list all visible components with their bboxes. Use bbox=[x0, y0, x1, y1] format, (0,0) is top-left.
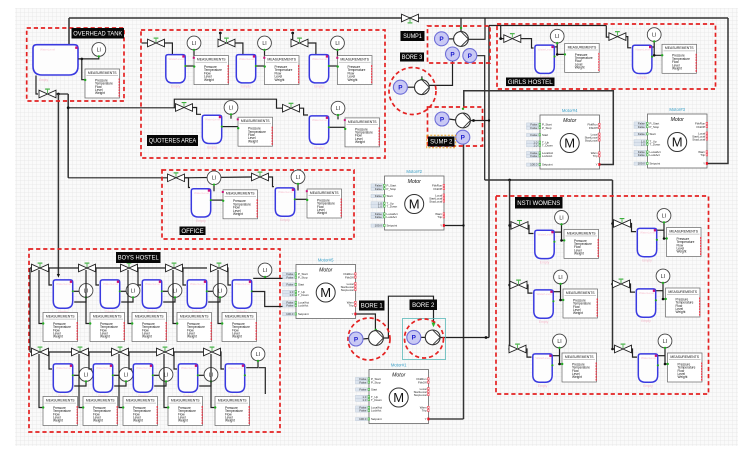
svg-text:SUMP 2: SUMP 2 bbox=[430, 140, 453, 146]
svg-text:Motor#4: Motor#4 bbox=[562, 108, 578, 113]
svg-text:Motor#2: Motor#2 bbox=[406, 169, 422, 174]
svg-text:BORE 2: BORE 2 bbox=[412, 303, 435, 309]
svg-text:QUOTERES AREA: QUOTERES AREA bbox=[149, 138, 197, 145]
svg-text:BORE 1: BORE 1 bbox=[361, 304, 384, 310]
svg-text:SUMP1: SUMP1 bbox=[403, 34, 422, 40]
svg-text:NSTI WOMENS: NSTI WOMENS bbox=[517, 200, 560, 207]
svg-text:Motor#3: Motor#3 bbox=[669, 107, 685, 112]
svg-text:BOYS HOSTEL: BOYS HOSTEL bbox=[118, 256, 160, 262]
svg-text:Empty: Empty bbox=[39, 78, 48, 82]
svg-text:BORE 3: BORE 3 bbox=[402, 55, 423, 61]
svg-text:OFFICE: OFFICE bbox=[181, 229, 203, 235]
svg-text:Motor#5: Motor#5 bbox=[318, 258, 334, 263]
svg-text:WaterLevel: WaterLevel bbox=[40, 48, 55, 52]
svg-text:GIRLS HOSTEL: GIRLS HOSTEL bbox=[508, 79, 554, 86]
svg-text:Motor#1: Motor#1 bbox=[391, 363, 407, 368]
svg-text:OVERHEAD TANK: OVERHEAD TANK bbox=[73, 30, 123, 37]
